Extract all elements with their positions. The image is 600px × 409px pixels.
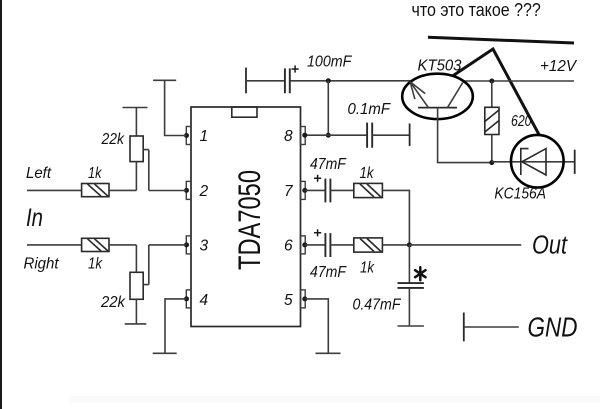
- U1 pin 4 tab: [186, 290, 191, 308]
- wire C4 to R4: [330, 244, 353, 246]
- wire GND: [464, 326, 519, 328]
- left image border: [0, 0, 2, 409]
- C2 right terminal bar: [409, 124, 411, 147]
- node dot zener junction: [489, 160, 494, 165]
- wire out node to C5: [408, 245, 410, 283]
- right pot wiper tap: [143, 245, 149, 285]
- node dot pin4: [184, 296, 189, 301]
- ground T-bar C5: [398, 325, 424, 327]
- svg-text:6: 6: [284, 238, 293, 255]
- wire left pot bottom to input wire: [135, 162, 137, 191]
- VD1 right terminal bar: [574, 150, 576, 174]
- annotation pointer lines: [453, 49, 540, 136]
- R4 hatch: [360, 239, 381, 252]
- wire R5 to zener node: [491, 135, 493, 163]
- node dot pin6: [302, 242, 307, 247]
- wire R4 to out node: [382, 244, 409, 246]
- svg-text:3: 3: [200, 238, 209, 255]
- transistor Q1 KT503 circle: [402, 74, 473, 119]
- wire pin1 to top bar: [165, 80, 187, 135]
- wire right pot top stem: [135, 245, 137, 272]
- U1 pin 2 tab: [186, 181, 191, 199]
- R1 hatch: [88, 184, 109, 196]
- capacitor C2 0.1mF plates: [367, 123, 372, 148]
- wire zener axis: [492, 161, 575, 163]
- svg-text:2: 2: [199, 183, 209, 200]
- wire C5 to ground: [408, 288, 410, 326]
- wire junction to C2: [328, 134, 367, 136]
- wire R2 to right pot: [109, 244, 136, 246]
- wire pin4 to ground: [165, 299, 187, 353]
- Q1 collector line: [448, 83, 463, 108]
- U1 pin 7 tab: [301, 181, 306, 199]
- C4 plus sign: [314, 229, 321, 236]
- svg-text:8: 8: [284, 128, 293, 145]
- U1 pin 5 tab: [301, 290, 306, 308]
- power rail +12V wire left segment: [290, 80, 410, 82]
- wire Left input: [27, 189, 82, 191]
- capacitor C3 47mF plates: [325, 179, 330, 203]
- wire Right input: [27, 244, 82, 246]
- U1 pin 8 tab: [301, 127, 306, 145]
- svg-text:TDA7050: TDA7050: [231, 170, 267, 270]
- Q1 emitter line: [410, 82, 428, 108]
- U1 pin 3 tab: [186, 236, 191, 254]
- wire out node to Out: [409, 244, 521, 246]
- U1 pin 1 tab: [186, 127, 191, 145]
- capacitor C1 100mF input terminal bar: [245, 68, 247, 94]
- svg-text:Left: Left: [26, 165, 52, 182]
- node dot rail/C1 junction: [326, 78, 331, 83]
- capacitor C4 47mF plates: [325, 233, 330, 257]
- wire wiper to pin3: [149, 244, 187, 246]
- node dot out: [407, 242, 412, 247]
- wire bar to left pot: [135, 108, 137, 137]
- resistor R5 620 body: [485, 107, 499, 134]
- wire C3 to R3: [330, 189, 353, 191]
- svg-text:5: 5: [284, 292, 293, 309]
- ground T-bar above left pot: [123, 107, 148, 109]
- svg-text:1: 1: [200, 128, 209, 145]
- zener VD1 KC156A circle: [511, 135, 564, 188]
- wire rail to R5 620: [491, 81, 493, 107]
- svg-text:4: 4: [200, 292, 209, 309]
- C3 plus sign: [314, 175, 321, 182]
- R5 620 hatch: [485, 110, 499, 132]
- node dot pin2: [184, 188, 189, 193]
- node dot pin8: [302, 133, 307, 138]
- node dot pin5: [302, 296, 307, 301]
- svg-text:KC156A: KC156A: [494, 185, 546, 202]
- resistor R4 1k body: [354, 238, 383, 252]
- node dot pin7: [302, 188, 307, 193]
- ground T-bar below right pot: [125, 323, 147, 325]
- wire pin7 to C3: [305, 189, 326, 191]
- wire C2 to terminal bar: [372, 134, 409, 136]
- label asterisk: [415, 267, 425, 280]
- svg-text:22k: 22k: [101, 131, 125, 148]
- svg-text:7: 7: [284, 183, 294, 200]
- Q1 emitter arrow barbs: [410, 82, 425, 99]
- capacitor C1 100mF plates: [285, 68, 290, 93]
- annotation underline: [428, 37, 574, 43]
- C1 plus sign: [292, 65, 299, 72]
- wire junction down to pin8 node: [327, 81, 329, 135]
- resistor R3 1k body: [354, 183, 383, 197]
- svg-text:+12V: +12V: [540, 58, 577, 75]
- svg-text:1k: 1k: [88, 255, 103, 272]
- svg-text:0.1mF: 0.1mF: [348, 101, 392, 118]
- U1 notch: [232, 107, 257, 117]
- svg-text:620: 620: [511, 113, 532, 130]
- U1 pin 6 tab: [301, 236, 306, 254]
- IC U1 TDA7050 body: [191, 107, 301, 327]
- svg-text:1k: 1k: [88, 165, 102, 182]
- node dot pin1: [184, 133, 189, 138]
- wire R3 to out node: [382, 190, 409, 245]
- svg-text:KT503: KT503: [418, 57, 462, 74]
- R2 hatch: [88, 239, 109, 251]
- svg-text:GND: GND: [528, 311, 578, 342]
- potentiometer 22k right body: [130, 272, 143, 299]
- capacitor C5 0.47mF plates: [398, 283, 424, 288]
- svg-text:In: In: [26, 204, 43, 232]
- wire pin6 to C4: [305, 244, 326, 246]
- Q1 base bar: [418, 107, 457, 109]
- potentiometer 22k left body: [130, 136, 143, 162]
- svg-text:что это такое ???: что это такое ???: [412, 0, 541, 20]
- wire wiper to pin2: [149, 190, 187, 192]
- svg-text:1k: 1k: [360, 165, 375, 182]
- svg-text:1k: 1k: [360, 259, 375, 276]
- Q1 base wire down and right: [438, 108, 492, 163]
- ground T-bar pin4: [153, 352, 177, 354]
- ground T-bar above pin1 wire: [153, 79, 176, 81]
- GND terminal bar: [463, 313, 465, 342]
- VD1 cathode bar with hook: [521, 149, 529, 175]
- wire pin5 to ground: [305, 299, 329, 353]
- resistor R1 1k left body: [82, 184, 109, 197]
- wire terminal to C1: [246, 80, 285, 82]
- wire pin8 to junction: [305, 134, 329, 136]
- wire right pot to ground: [135, 299, 137, 324]
- left pot wiper tap: [143, 150, 149, 191]
- svg-text:47mF: 47mF: [310, 264, 347, 281]
- svg-text:100mF: 100mF: [307, 53, 353, 70]
- svg-text:47mF: 47mF: [310, 156, 347, 173]
- svg-text:0.47mF: 0.47mF: [353, 297, 402, 314]
- power rail +12V wire right segment: [463, 80, 574, 82]
- ground T-bar pin5: [316, 352, 341, 354]
- VD1 triangle: [522, 149, 546, 175]
- node dot pin3: [184, 242, 189, 247]
- node dot rail/620 junction: [489, 79, 494, 84]
- node dot pin8 junction: [326, 133, 331, 138]
- svg-text:22k: 22k: [100, 294, 126, 311]
- R3 hatch: [360, 184, 381, 197]
- svg-text:Out: Out: [532, 232, 568, 260]
- resistor R2 1k right body: [82, 238, 109, 251]
- svg-text:Right: Right: [24, 255, 60, 272]
- wire R1 to left pot: [109, 189, 136, 191]
